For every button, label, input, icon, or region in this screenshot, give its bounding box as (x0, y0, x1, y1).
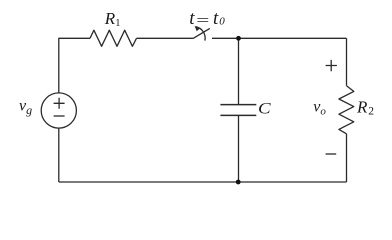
node: bottom junction dot (236, 180, 241, 185)
minus sign inside source (54, 115, 65, 117)
wire: R2 bottom to bottom-right corner (346, 134, 348, 182)
wire: right branch upper (corner down to R2) (346, 38, 348, 85)
resistor R2 (vertical zigzag) (339, 86, 354, 134)
wire: left branch top (source top to top-left corner to R1) (59, 38, 90, 93)
resistor R1 (zigzag) (90, 30, 137, 46)
svg-text:=: = (195, 12, 211, 30)
wire: bottom rail (59, 181, 347, 183)
svg-text:vg: vg (19, 98, 32, 117)
wire: R1 to switch left contact (137, 37, 194, 39)
plus sign inside source (54, 98, 65, 109)
voltage source vg circle (41, 93, 76, 128)
node: top junction dot (236, 36, 241, 41)
wire: middle branch top (junction to capacitor) (238, 38, 240, 104)
wire: middle branch bottom (capacitor to bottom rail) (238, 115, 240, 182)
svg-text:0: 0 (219, 16, 225, 28)
switch motion arc (196, 27, 206, 41)
svg-text:R1: R1 (104, 9, 121, 29)
minus sign (vo polarity bottom) (326, 153, 337, 155)
plus sign (vo polarity top) (326, 60, 337, 71)
svg-text:t: t (213, 8, 219, 29)
switch blade (194, 28, 210, 38)
svg-text:R2: R2 (356, 98, 374, 118)
wire: switch right contact to top-right corner (212, 37, 347, 39)
svg-text:C: C (258, 99, 271, 117)
switch arrowhead (195, 26, 200, 31)
capacitor C bottom plate (220, 114, 256, 116)
svg-text:vo: vo (313, 99, 326, 118)
capacitor C top plate (220, 104, 256, 106)
wire: left branch bottom (source bottom to bottom-left corner) (58, 128, 60, 182)
